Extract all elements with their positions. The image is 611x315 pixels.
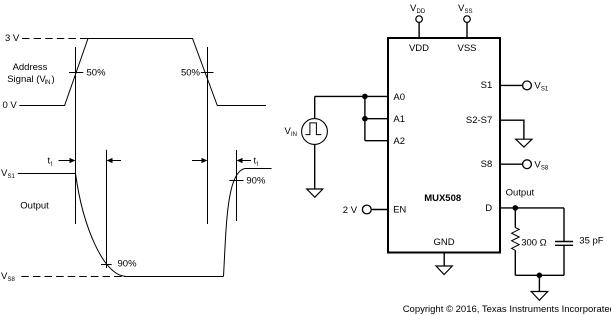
- svg-text:A2: A2: [393, 136, 405, 147]
- svg-text:MUX508: MUX508: [424, 193, 461, 204]
- svg-text:S8: S8: [481, 159, 493, 170]
- svg-text:Output: Output: [20, 201, 49, 212]
- svg-text:0 V: 0 V: [3, 100, 18, 111]
- svg-text:S1: S1: [8, 174, 16, 180]
- svg-text:2 V: 2 V: [343, 205, 358, 216]
- svg-text:Copyright © 2016, Texas Instru: Copyright © 2016, Texas Instruments Inco…: [403, 304, 611, 315]
- svg-text:SS: SS: [465, 9, 473, 15]
- svg-text:EN: EN: [393, 205, 406, 216]
- svg-text:IN: IN: [45, 80, 51, 86]
- svg-text:S8: S8: [541, 165, 549, 171]
- svg-text:300 Ω: 300 Ω: [521, 238, 547, 249]
- svg-text:50%: 50%: [87, 68, 107, 79]
- svg-text:Signal (V: Signal (V: [7, 74, 46, 85]
- svg-text:S2-S7: S2-S7: [466, 115, 492, 126]
- svg-text:35 pF: 35 pF: [579, 236, 603, 247]
- svg-text:90%: 90%: [246, 176, 266, 187]
- svg-text:A1: A1: [393, 114, 405, 125]
- svg-text:90%: 90%: [118, 259, 138, 270]
- svg-text:Output: Output: [506, 188, 535, 199]
- svg-text:S1: S1: [541, 87, 549, 93]
- svg-text:DD: DD: [417, 9, 426, 15]
- svg-text:): ): [52, 74, 55, 85]
- svg-text:A0: A0: [393, 92, 405, 103]
- svg-text:50%: 50%: [181, 68, 201, 79]
- svg-text:Address: Address: [13, 62, 48, 73]
- svg-text:VSS: VSS: [457, 43, 476, 54]
- svg-text:S1: S1: [481, 80, 493, 91]
- svg-text:VDD: VDD: [409, 43, 429, 54]
- svg-text:GND: GND: [433, 237, 454, 248]
- svg-text:D: D: [485, 203, 492, 214]
- svg-text:S8: S8: [8, 277, 16, 283]
- svg-text:3 V: 3 V: [5, 33, 20, 44]
- svg-text:IN: IN: [291, 132, 297, 138]
